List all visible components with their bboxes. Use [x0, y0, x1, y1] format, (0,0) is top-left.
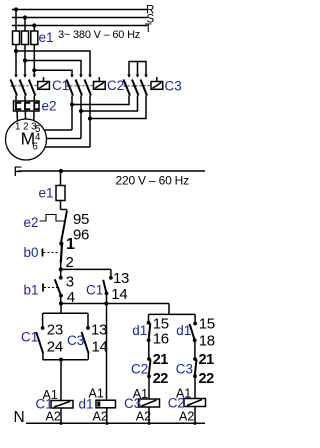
contactor C3 actuator box	[151, 77, 163, 89]
svg-text:1: 1	[66, 236, 75, 253]
svg-text:C3: C3	[67, 333, 84, 348]
supply line S	[12, 17, 148, 19]
svg-text:e1: e1	[39, 186, 54, 201]
svg-text:C3: C3	[165, 79, 182, 94]
svg-text:22: 22	[199, 371, 215, 387]
wire fuse3 down	[33, 45, 35, 78]
contactor C3 main contacts	[124, 75, 152, 96]
svg-text:C2: C2	[168, 396, 185, 411]
svg-text:C1: C1	[86, 283, 103, 298]
wire to C1 coil	[60, 360, 62, 401]
contact C1 13-14 NO	[103, 269, 113, 303]
overload NC contact e2 95-96	[40, 210, 68, 243]
svg-text:F: F	[14, 163, 23, 179]
wire b0 to node	[60, 263, 62, 270]
svg-text:4: 4	[67, 289, 75, 306]
node delta3	[88, 116, 92, 120]
fuse e1 pole2	[22, 31, 29, 45]
wire phase1 to fuse	[15, 10, 17, 32]
svg-text:14: 14	[92, 338, 108, 355]
svg-text:N: N	[14, 409, 25, 426]
svg-text:6: 6	[32, 142, 37, 153]
wire overload to motor 1	[16, 111, 19, 121]
left pair top bar	[43, 312, 88, 314]
contactor C2 actuator box	[94, 77, 106, 89]
contact C1 23-24 NO	[36, 313, 44, 359]
svg-text:21: 21	[199, 352, 215, 368]
svg-text:C1: C1	[52, 78, 69, 93]
control line F	[18, 170, 206, 172]
overload element 3	[34, 103, 39, 109]
wire C2 contact3 down to motor6	[89, 96, 91, 148]
svg-text:d1: d1	[132, 323, 147, 338]
svg-text:C1: C1	[21, 330, 38, 345]
svg-text:e1: e1	[39, 30, 54, 45]
motor line 4	[46, 138, 81, 140]
svg-text:14: 14	[111, 286, 127, 303]
svg-text:15: 15	[199, 315, 215, 332]
node branch3	[32, 68, 36, 72]
fuse e1 pole1	[13, 31, 20, 45]
contactor C1 main contacts	[11, 75, 38, 96]
wire overload to motor 3	[33, 111, 35, 121]
motor line 5	[44, 129, 72, 131]
line N	[26, 422, 205, 424]
wire fuse to e2 contact	[60, 201, 62, 210]
node S tap	[23, 15, 27, 19]
node R tap	[14, 7, 18, 11]
svg-text:22: 22	[153, 371, 169, 387]
coil C2	[184, 399, 206, 424]
wire F to fuse e1	[60, 171, 62, 186]
node N4	[193, 422, 196, 425]
svg-text:A2: A2	[46, 410, 61, 424]
svg-text:C2: C2	[131, 362, 148, 377]
node branch2	[23, 58, 27, 62]
node N3	[147, 422, 150, 425]
svg-text:d1: d1	[79, 397, 94, 412]
supply line R	[12, 9, 148, 11]
fuse e1 pole3	[31, 31, 38, 45]
motor line 6	[45, 146, 90, 148]
wire phase2 to fuse	[24, 18, 26, 32]
wire branch3 to C2 contact1	[34, 70, 72, 77]
svg-text:13: 13	[113, 270, 129, 287]
node F tap	[59, 169, 63, 173]
svg-text:A2: A2	[136, 410, 151, 424]
wire delta2 to C3 contact2	[81, 96, 138, 112]
node b0 top	[59, 242, 63, 246]
svg-text:b1: b1	[24, 283, 39, 298]
wire left pair stub	[60, 304, 62, 314]
node delta1	[70, 102, 74, 106]
wire fuse1 down	[15, 45, 17, 78]
contactor C1 actuator box	[38, 77, 50, 89]
contact d1 15-16 NC timer	[147, 314, 151, 359]
svg-text:16: 16	[153, 330, 169, 347]
node pair bottom	[59, 358, 63, 362]
pushbutton b1 NO	[43, 269, 63, 303]
coil d1 timer	[96, 304, 116, 424]
svg-text:24: 24	[47, 338, 63, 355]
overload element 2	[25, 103, 30, 109]
rung wire	[61, 303, 170, 305]
fuse e1 control	[56, 186, 65, 201]
svg-text:13: 13	[91, 321, 107, 338]
svg-text:C3: C3	[176, 362, 193, 377]
svg-text:3: 3	[66, 273, 74, 290]
right pair top bar	[149, 313, 196, 315]
svg-text:96: 96	[73, 227, 89, 244]
wire phase3 to fuse	[33, 26, 35, 32]
svg-text:b0: b0	[24, 245, 39, 260]
node rung left	[59, 301, 63, 305]
node delta2	[79, 109, 83, 113]
node N1	[59, 422, 62, 425]
wire delta1 to C3 contact1	[72, 96, 129, 105]
svg-text:21: 21	[153, 352, 169, 368]
star bridge over C3	[129, 62, 146, 78]
node branch to C1 aux	[59, 267, 63, 271]
supply line T	[12, 25, 148, 27]
wire fuse2 down	[24, 45, 26, 78]
svg-text:d1: d1	[176, 323, 191, 338]
wire branch1 to C2 contact3	[16, 51, 90, 77]
svg-text:C2: C2	[107, 78, 124, 93]
wire overload to motor 2	[24, 111, 26, 119]
node N2	[105, 422, 108, 425]
svg-text:2: 2	[66, 254, 74, 271]
svg-text:e2: e2	[42, 99, 57, 114]
svg-text:18: 18	[199, 333, 215, 350]
pushbutton b0 NC	[43, 244, 63, 263]
svg-text:e2: e2	[24, 215, 39, 230]
contact d1 15-18 NO timer	[190, 314, 197, 359]
left pair bottom bar	[43, 359, 88, 361]
wire rung down to d1 pair	[168, 304, 170, 315]
svg-text:95: 95	[73, 211, 89, 228]
svg-text:220 V – 60 Hz: 220 V – 60 Hz	[116, 174, 190, 188]
node C3 21 top	[193, 357, 197, 361]
contact C2 21-22 NC	[147, 360, 151, 400]
svg-text:3~ 380 V – 60 Hz: 3~ 380 V – 60 Hz	[58, 29, 140, 41]
wire branch to C1 aux	[61, 268, 111, 270]
contact C3 13-14 NO	[82, 313, 90, 359]
node branch1	[14, 49, 18, 53]
wire branch2 to C2 contact2	[25, 61, 81, 78]
node rung C1aux	[104, 301, 108, 305]
motor M circle	[6, 119, 47, 160]
overload element 1	[16, 103, 21, 109]
overload relay e2 box	[14, 101, 40, 111]
wire C2 contact2 down to motor4	[80, 96, 82, 139]
contact C3 21-22 NC	[193, 360, 197, 399]
wire C2 contact1 down to motor5	[71, 96, 73, 131]
coil C3	[139, 399, 160, 423]
svg-text:23: 23	[47, 321, 63, 338]
wire delta3 to C3 contact3	[90, 96, 146, 119]
coil C1	[51, 401, 73, 424]
node C2 21 top	[147, 357, 151, 361]
svg-text:A2: A2	[93, 410, 108, 424]
svg-text:T: T	[145, 23, 152, 35]
node T tap	[32, 23, 36, 27]
contactor C2 main contacts	[67, 75, 94, 96]
wire C1 contacts to overload	[15, 96, 17, 102]
svg-text:A2: A2	[179, 410, 194, 424]
